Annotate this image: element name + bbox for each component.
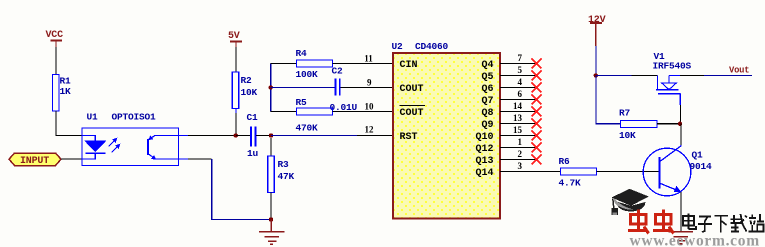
svg-text:1K: 1K xyxy=(60,86,72,97)
resistor R7 xyxy=(619,108,657,142)
pin 2 Q13 stub xyxy=(500,149,537,160)
svg-text:15: 15 xyxy=(513,125,523,135)
wire INPUT to opto cathode xyxy=(61,158,82,160)
svg-text:Q5: Q5 xyxy=(481,72,493,83)
wire 12V node down to R7 xyxy=(596,75,621,123)
wire oscillator tie line xyxy=(270,64,272,112)
no-connect X pin 1 xyxy=(532,143,542,153)
wire R1 to opto anode xyxy=(56,111,82,136)
pin 3 Q14 stub wire to R6 xyxy=(500,161,561,172)
mosfet V1 IRF540S xyxy=(656,75,680,105)
svg-text:R3: R3 xyxy=(278,159,290,170)
svg-text:Q8: Q8 xyxy=(481,108,493,119)
svg-text:Q6: Q6 xyxy=(481,84,493,95)
svg-text:14: 14 xyxy=(513,101,523,111)
wire emitter down xyxy=(680,192,682,232)
svg-text:1u: 1u xyxy=(247,148,259,159)
svg-text:R1: R1 xyxy=(60,76,72,87)
svg-text:Vout: Vout xyxy=(729,66,749,76)
ground symbol under R3 xyxy=(259,220,285,245)
U1 light arrows xyxy=(109,139,120,153)
svg-text:12V: 12V xyxy=(588,15,606,26)
svg-text:Q9: Q9 xyxy=(481,120,493,131)
wire 5V to R2 xyxy=(235,47,237,72)
power VCC xyxy=(46,30,64,47)
wire node to C1 xyxy=(236,135,251,137)
svg-text:Q7: Q7 xyxy=(481,96,493,107)
pin label COUT-bar xyxy=(400,105,426,119)
no-connect X pin 14 xyxy=(532,107,542,117)
opto-isolator U1 box xyxy=(82,112,179,166)
svg-text:12: 12 xyxy=(365,125,375,135)
svg-text:R2: R2 xyxy=(241,75,253,86)
U1 collector pin xyxy=(179,135,189,137)
node junction R2/collector xyxy=(234,133,238,137)
svg-text:10: 10 xyxy=(365,101,375,111)
no-connect X pin 2 xyxy=(532,155,542,165)
pin 5 Q5 stub xyxy=(500,65,537,76)
watermark black glyphs dianzixiazaizhan xyxy=(683,214,764,233)
pin 15 Q10 stub xyxy=(500,125,537,136)
pin 6 Q7 stub xyxy=(500,89,537,100)
svg-text:Q4: Q4 xyxy=(481,60,493,71)
no-connect X pin 6 xyxy=(532,95,542,105)
svg-text:COUT: COUT xyxy=(400,108,424,119)
svg-text:2: 2 xyxy=(518,149,523,159)
svg-text:Q14: Q14 xyxy=(475,168,493,179)
no-connect X pin 7 xyxy=(532,59,542,69)
resistor R6 xyxy=(559,156,597,189)
wire drain to Vout xyxy=(680,74,752,76)
power 12V xyxy=(588,15,606,46)
wire R4 to pin11 xyxy=(333,63,393,65)
svg-text:R7: R7 xyxy=(619,108,631,119)
svg-text:10K: 10K xyxy=(241,87,258,98)
svg-text:U2: U2 xyxy=(392,41,404,52)
svg-text:9014: 9014 xyxy=(690,161,713,172)
transistor Q1 xyxy=(643,146,691,196)
wire C2 to pin9 xyxy=(340,87,392,89)
wire C1 to node R3 xyxy=(256,135,271,137)
wire tie to R5 xyxy=(271,111,297,113)
svg-text:47K: 47K xyxy=(278,171,295,182)
node junction emitter/R3/ground xyxy=(269,217,273,221)
svg-text:470K: 470K xyxy=(296,123,319,134)
wire R6 to Q1 base xyxy=(597,171,659,173)
svg-text:13: 13 xyxy=(513,113,523,123)
pin 7 Q4 stub xyxy=(500,53,537,64)
wire node down to Q1 collector xyxy=(680,124,682,146)
pin 4 Q6 stub xyxy=(500,77,537,88)
wire R7 to gate node xyxy=(657,123,680,125)
port INPUT xyxy=(9,153,61,167)
svg-text:10K: 10K xyxy=(619,130,636,141)
wire emitter down-right to ground node xyxy=(188,159,271,220)
wire RST pin stub xyxy=(357,135,392,137)
svg-text:3: 3 xyxy=(518,161,523,171)
resistor R1 xyxy=(53,75,72,112)
wire collector to node R2 xyxy=(188,135,236,137)
no-connect X pin 15 xyxy=(532,131,542,141)
svg-text:Q10: Q10 xyxy=(475,132,493,143)
wire tie to C2 xyxy=(271,87,335,89)
ground symbol under Q1 xyxy=(669,232,694,244)
svg-text:6: 6 xyxy=(518,89,523,99)
node junction R3/RST xyxy=(269,133,273,137)
svg-text:5V: 5V xyxy=(228,31,240,42)
U1 phototransistor xyxy=(148,136,179,160)
U1 LED xyxy=(82,136,105,160)
wire R2 to node xyxy=(235,109,237,136)
pin 13 Q9 stub xyxy=(500,113,537,124)
svg-text:INPUT: INPUT xyxy=(20,156,49,167)
svg-text:Q1: Q1 xyxy=(692,150,704,161)
watermark chongchong red glyphs xyxy=(628,210,674,234)
power 5V xyxy=(228,31,242,47)
node junction tie/C2 xyxy=(269,85,273,89)
svg-text:OPTOISO1: OPTOISO1 xyxy=(112,112,157,123)
wire R3 top xyxy=(270,138,272,156)
svg-text:CIN: CIN xyxy=(400,60,418,71)
svg-text:5: 5 xyxy=(518,65,523,75)
svg-text:COUT: COUT xyxy=(400,84,424,95)
resistor R2 xyxy=(232,72,257,109)
resistor R4 xyxy=(296,48,333,80)
node junction 12V xyxy=(594,73,598,77)
resistor R5 xyxy=(296,97,333,134)
IC U2 CD4060 xyxy=(392,41,501,218)
svg-text:Q13: Q13 xyxy=(475,156,493,167)
no-connect X pin 13 xyxy=(532,119,542,129)
svg-text:C2: C2 xyxy=(332,66,344,77)
svg-text:www.eeworm.com: www.eeworm.com xyxy=(630,233,760,247)
svg-text:Q12: Q12 xyxy=(475,144,493,155)
svg-text:7: 7 xyxy=(518,53,523,63)
wire VCC to R1 xyxy=(55,47,57,75)
node junction gate/R7/collector xyxy=(678,122,682,126)
wire R3 to ground node xyxy=(270,193,272,220)
U1 emitter pin xyxy=(179,158,189,160)
svg-text:C1: C1 xyxy=(247,112,259,123)
svg-text:4.7K: 4.7K xyxy=(559,178,582,189)
svg-text:U1: U1 xyxy=(87,112,99,123)
no-connect X pin 5 xyxy=(532,71,542,81)
mosfet labels xyxy=(653,51,692,72)
svg-text:IRF540S: IRF540S xyxy=(653,61,692,72)
pin 14 Q8 stub xyxy=(500,101,537,112)
svg-text:R4: R4 xyxy=(296,48,308,59)
wire tie to R4 xyxy=(271,63,297,65)
capacitor C1 xyxy=(247,112,259,159)
pin 1 Q12 stub xyxy=(500,137,537,148)
svg-text:4: 4 xyxy=(518,77,523,87)
wire gate down to node xyxy=(679,105,681,124)
svg-text:1: 1 xyxy=(518,137,523,147)
wire 12V down to node xyxy=(595,46,597,75)
capacitor C2 xyxy=(330,66,358,114)
svg-text:R6: R6 xyxy=(559,156,571,167)
wire node to MOSFET source xyxy=(596,74,658,76)
svg-text:9: 9 xyxy=(367,77,372,87)
watermark graduation cap xyxy=(611,189,649,215)
svg-text:11: 11 xyxy=(364,53,373,63)
svg-text:RST: RST xyxy=(400,132,418,143)
svg-text:VCC: VCC xyxy=(46,30,64,41)
no-connect X pin 4 xyxy=(532,83,542,93)
transistor labels Q1 9014 xyxy=(690,150,713,173)
wire node to RST pin12 xyxy=(271,135,357,137)
wire R5 to pin10 xyxy=(333,111,393,113)
svg-text:100K: 100K xyxy=(296,69,319,80)
svg-text:R5: R5 xyxy=(296,97,308,108)
resistor R3 xyxy=(268,156,295,193)
svg-text:CD4060: CD4060 xyxy=(415,41,449,52)
